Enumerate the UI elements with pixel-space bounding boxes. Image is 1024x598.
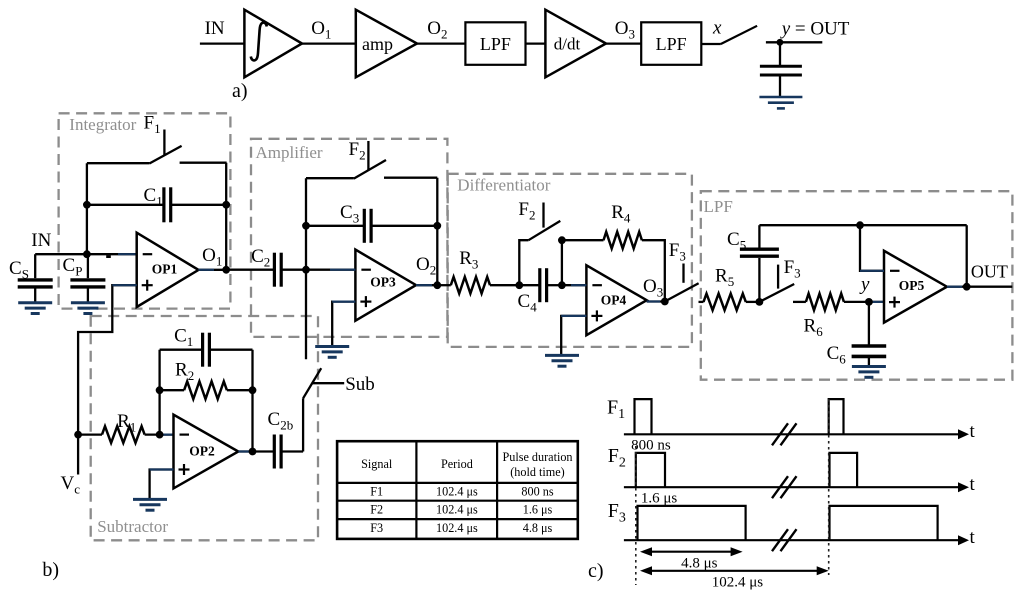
svg-text:Signal: Signal [361,457,393,471]
svg-text:102.4 μs: 102.4 μs [436,503,478,517]
svg-text:t: t [970,474,976,495]
svg-text:LPF: LPF [704,197,733,216]
svg-text:c): c) [588,560,604,582]
svg-text:d/dt: d/dt [554,35,581,54]
svg-text:OUT: OUT [971,262,1008,282]
svg-text:Differentiator: Differentiator [457,176,550,195]
svg-text:800 ns: 800 ns [631,438,671,454]
svg-text:y: y [859,274,870,295]
svg-text:IN: IN [205,18,225,39]
svg-text:Subtractor: Subtractor [97,517,168,536]
svg-text:102.4 μs: 102.4 μs [436,485,478,499]
svg-text:800 ns: 800 ns [521,485,553,499]
svg-text:OP1: OP1 [152,261,178,276]
svg-text:(hold time): (hold time) [510,465,565,479]
svg-text:LPF: LPF [480,34,511,54]
svg-text:OP3: OP3 [370,275,396,290]
svg-text:OP2: OP2 [189,444,215,459]
svg-text:102.4 μs: 102.4 μs [712,575,764,591]
svg-text:Amplifier: Amplifier [256,143,323,162]
svg-text:Integrator: Integrator [69,115,136,134]
svg-text:OP5: OP5 [899,278,925,293]
svg-text:102.4 μs: 102.4 μs [436,521,478,535]
svg-text:b): b) [42,559,59,581]
svg-text:4.8 μs: 4.8 μs [681,556,718,572]
svg-text:1.6 μs: 1.6 μs [523,503,553,517]
svg-text:LPF: LPF [656,34,687,54]
svg-text:amp: amp [362,34,393,54]
svg-text:Sub: Sub [345,374,375,395]
svg-text:4.8 μs: 4.8 μs [523,521,553,535]
svg-text:Pulse duration: Pulse duration [502,450,572,464]
svg-text:F1: F1 [370,485,383,499]
svg-text:F2: F2 [370,503,383,517]
svg-text:t: t [970,527,976,548]
svg-text:1.6 μs: 1.6 μs [641,491,678,507]
svg-text:OP4: OP4 [601,293,627,308]
svg-text:F3: F3 [370,521,383,535]
svg-text:x: x [712,18,722,39]
svg-text:a): a) [232,80,248,102]
svg-text:Period: Period [441,457,473,471]
svg-text:t: t [970,421,976,442]
svg-text:y = OUT: y = OUT [780,19,850,40]
svg-text:IN: IN [31,230,51,251]
